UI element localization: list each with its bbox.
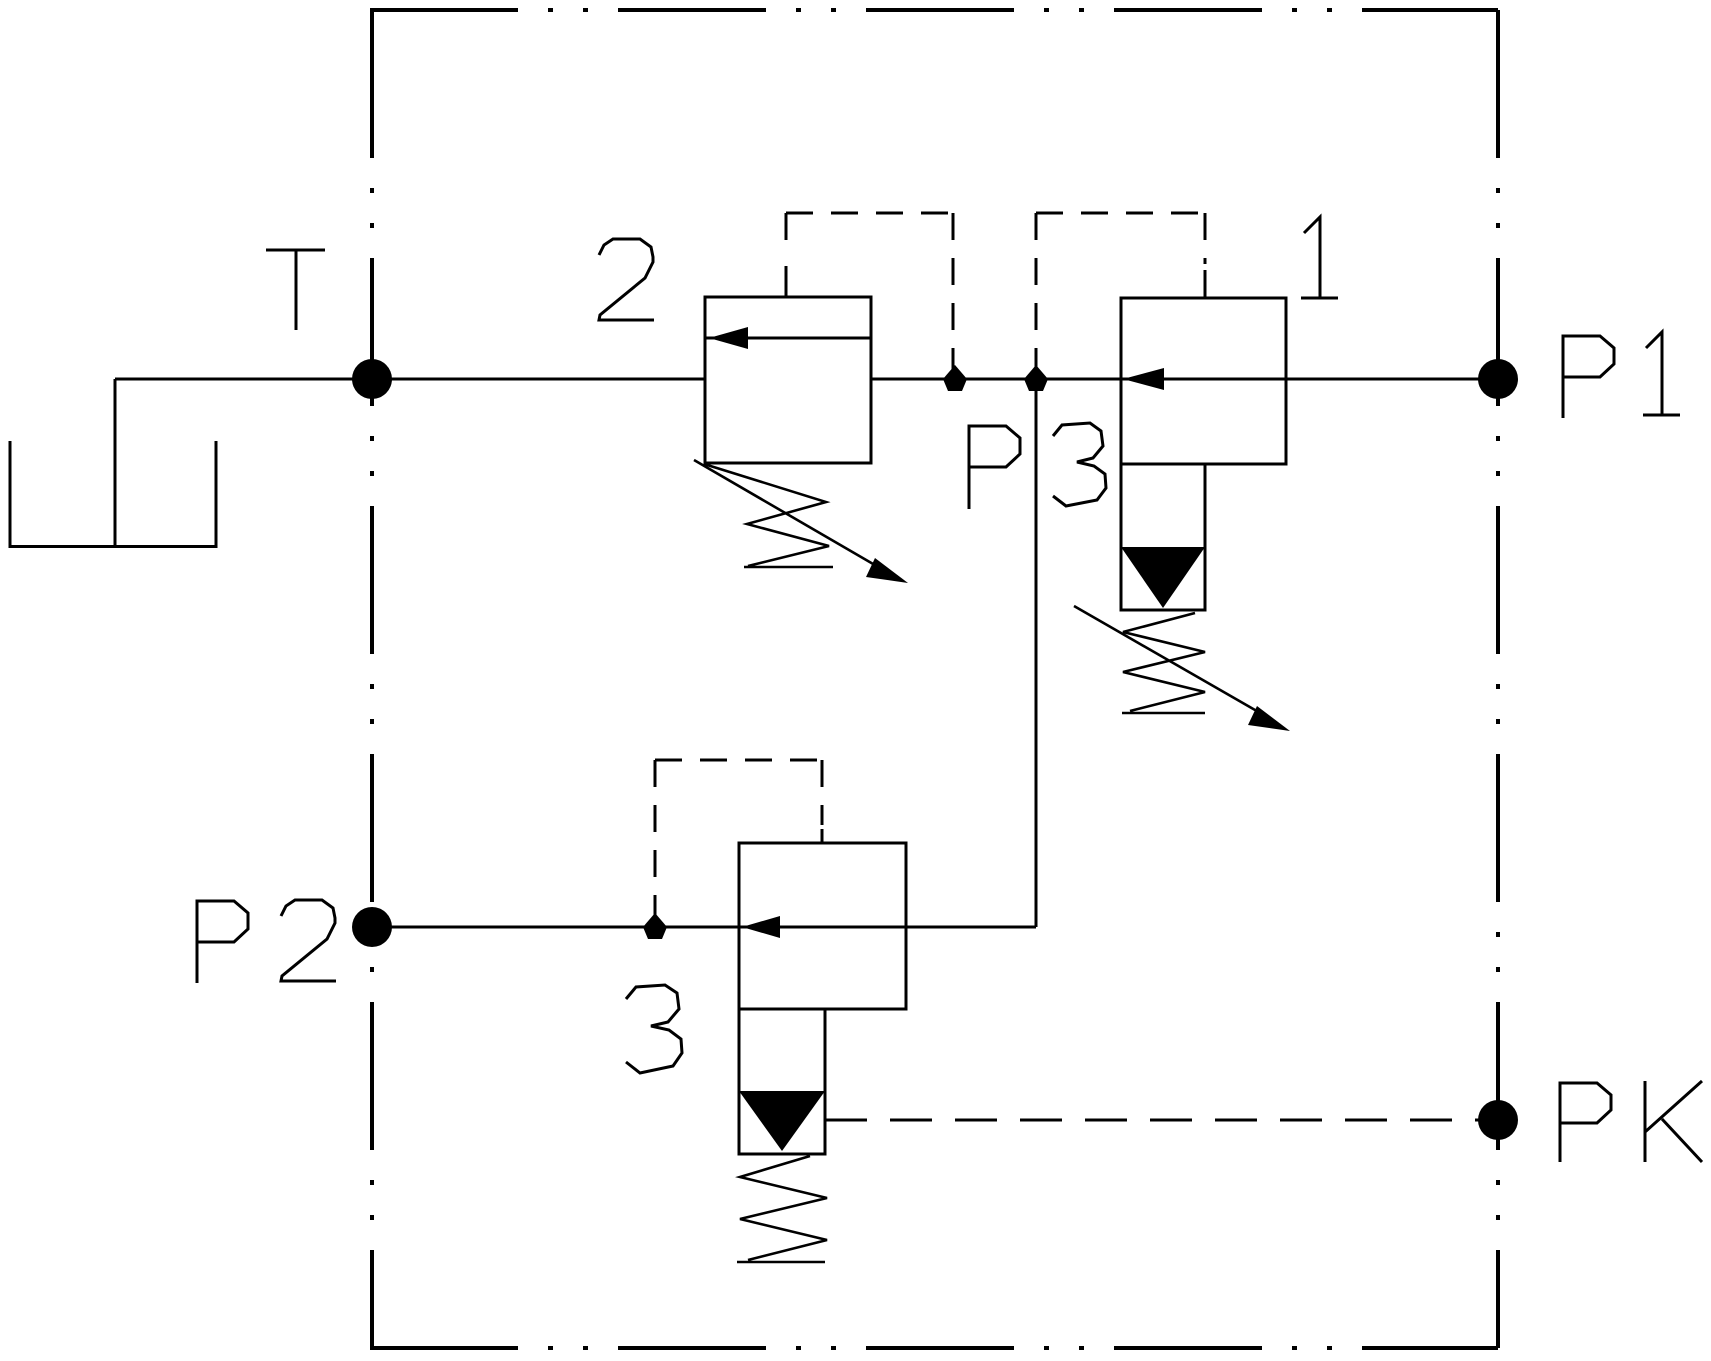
enclosure border right (1496, 10, 1500, 1348)
wire main line T to valve2 (372, 378, 705, 381)
valve 1 body (1121, 298, 1286, 464)
label T (266, 250, 325, 330)
valve 1 internal arrowhead (1123, 368, 1164, 390)
valve 2 internal passage (705, 337, 871, 340)
valve 2 internal arrowhead (709, 327, 748, 349)
label P2 (197, 901, 248, 983)
valve 3 body (739, 843, 906, 1009)
wire main line valve2 to P1 (871, 378, 1498, 381)
valve 1 check triangle (1121, 547, 1205, 608)
valve 3 lower body (739, 1009, 825, 1154)
valve 2 adjustment arrow (694, 460, 880, 568)
label P3 (969, 426, 1020, 509)
valve 1 lower body (1121, 464, 1205, 610)
enclosure border bottom (370, 1346, 1498, 1350)
valve 1 pilot dashed top (1036, 212, 1205, 215)
wire PK pilot dashed (825, 1119, 1490, 1122)
label 2 (valve 2) (599, 239, 654, 320)
valve 2 pilot dashed top (786, 212, 953, 215)
valve 1 spring (1122, 613, 1205, 713)
junction valve3 pilot (643, 913, 667, 939)
label P1 (1563, 336, 1614, 418)
valve 3 internal arrowhead (742, 916, 780, 938)
valve 2 body (705, 297, 871, 463)
enclosure border left (370, 10, 374, 1348)
valve 2 pilot line stub (785, 266, 788, 297)
valve 3 pilot dashed left (654, 760, 657, 918)
wire P2 line (372, 926, 1036, 929)
valve 3 check triangle (739, 1091, 825, 1151)
port P1 node (1478, 359, 1518, 399)
port P2 node (352, 907, 392, 947)
junction valve1 pilot (1024, 365, 1048, 391)
junction valve2 pilot (943, 365, 967, 391)
valve 3 pilot stub (821, 829, 824, 843)
valve 1 pilot stub (1204, 270, 1207, 298)
port PK node (1478, 1100, 1518, 1140)
label 3 (valve 3) (626, 985, 682, 1073)
valve 1 pilot dashed left (1035, 213, 1038, 370)
valve 3 spring (737, 1156, 827, 1262)
valve 2 pilot dashed left (785, 213, 788, 240)
valve 2 pilot dashed right (952, 213, 955, 370)
valve 3 pilot dashed right (821, 760, 824, 825)
valve 1 adjustment arrow (1074, 606, 1262, 714)
enclosure border top (370, 8, 1498, 12)
valve 2 spring (704, 464, 833, 567)
wire P3 vertical line (1035, 379, 1038, 927)
valve 3 pilot dashed top (655, 759, 822, 762)
valve 1 pilot dashed right (1204, 213, 1207, 264)
label 1 (valve 1) (1301, 217, 1338, 298)
wire tank branch vertical (114, 379, 117, 547)
label PK (1560, 1083, 1611, 1162)
tank symbol (10, 441, 216, 548)
wire tank branch horizontal (115, 378, 372, 381)
port T node (352, 359, 392, 399)
